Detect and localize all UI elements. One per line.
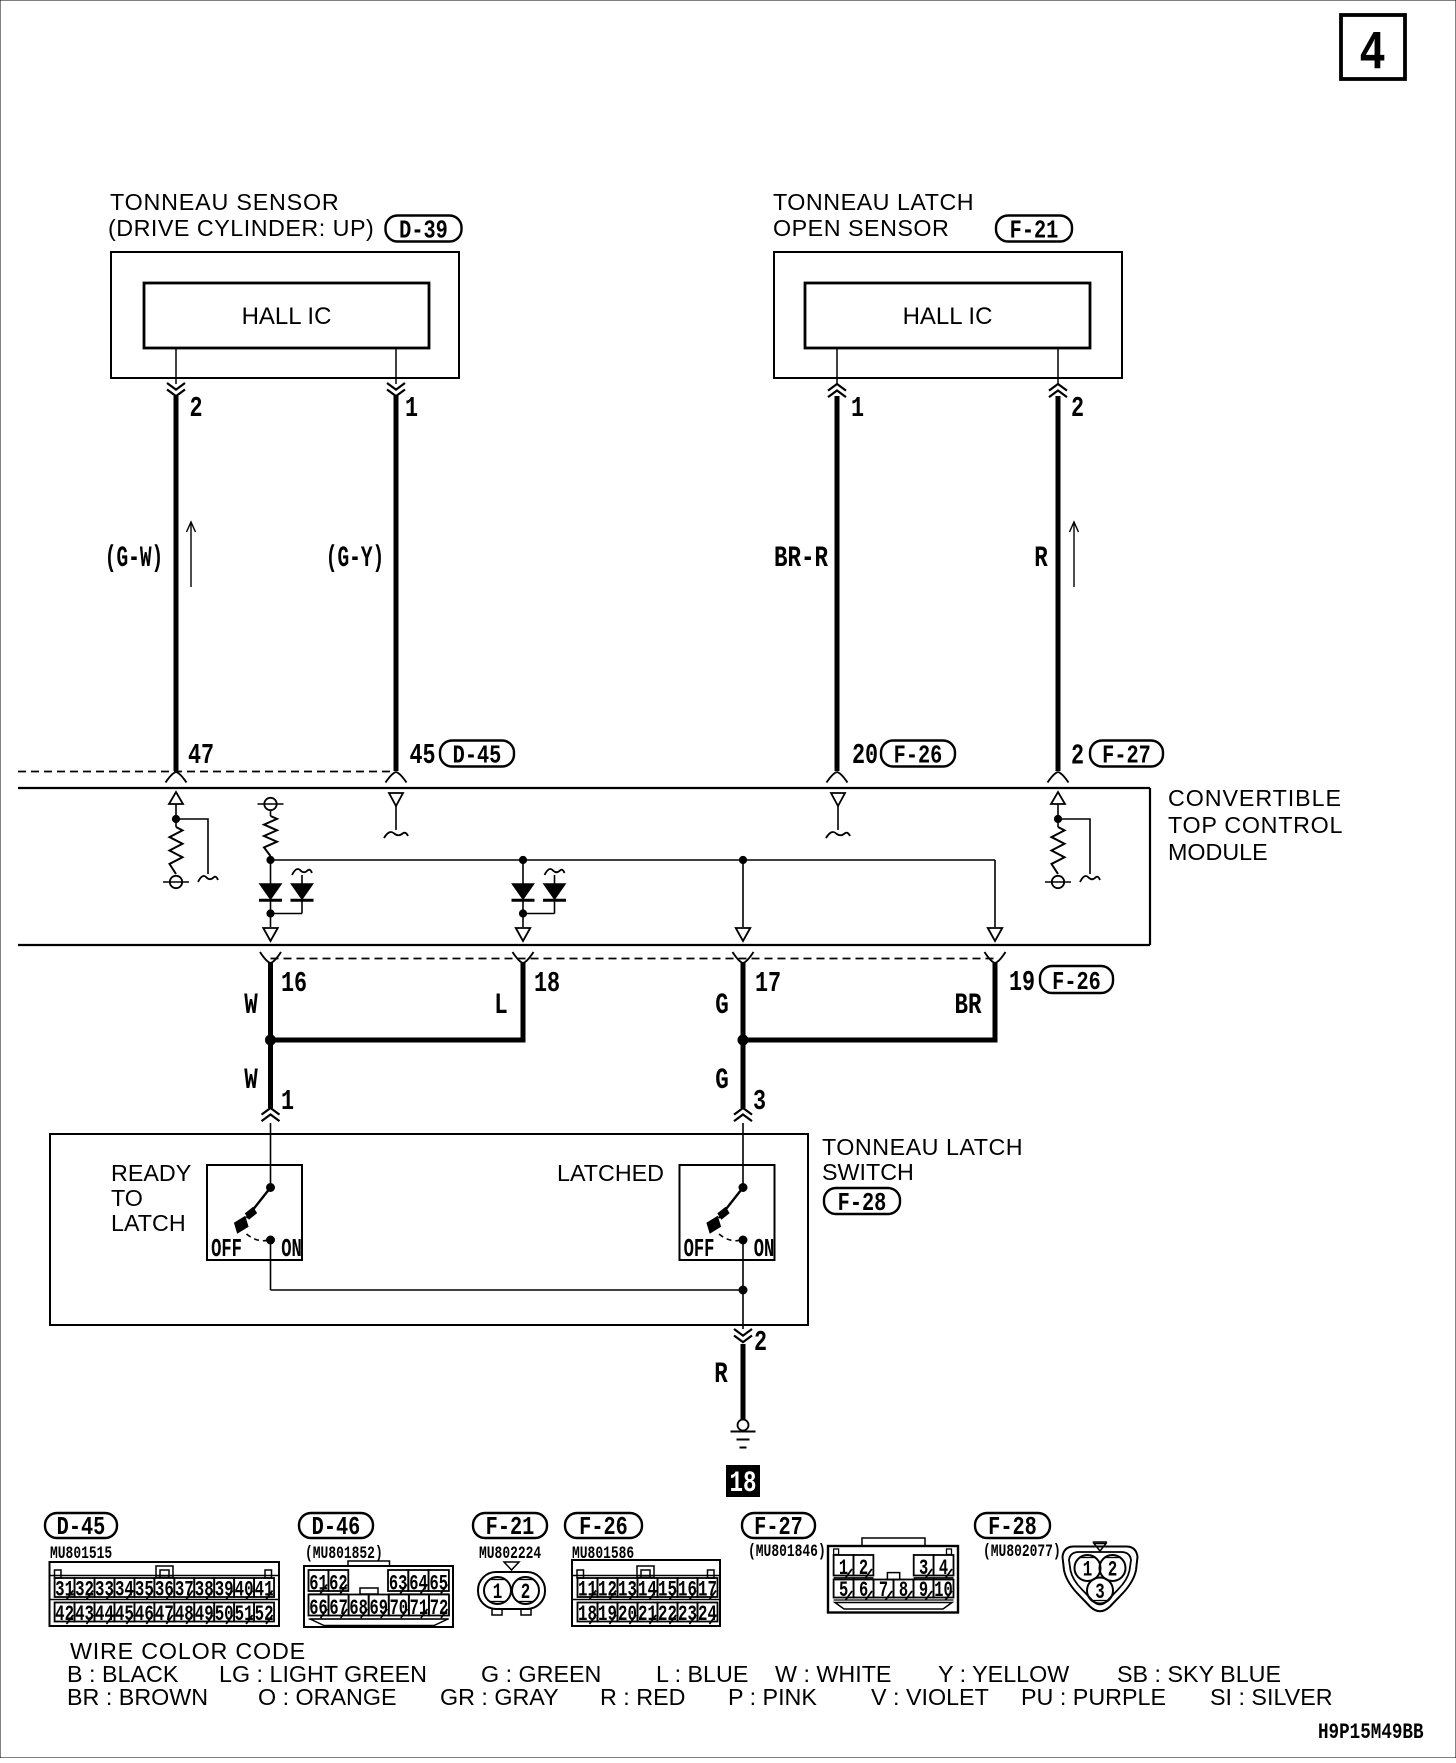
svg-text:F-26: F-26 xyxy=(894,741,943,770)
svg-text:TONNEAU SENSOR: TONNEAU SENSOR xyxy=(110,189,340,215)
svg-text:CONVERTIBLE: CONVERTIBLE xyxy=(1168,785,1342,811)
hall IC U2 box (right sensor) xyxy=(805,283,1090,348)
svg-text:72: 72 xyxy=(430,1595,448,1620)
switch pin 3 arrow xyxy=(734,1108,752,1115)
svg-text:71: 71 xyxy=(410,1595,428,1620)
signal direction arrow (R) xyxy=(1073,524,1075,587)
svg-text:12: 12 xyxy=(598,1577,617,1602)
svg-text:P : PINK: P : PINK xyxy=(728,1684,817,1710)
wire G-BR join xyxy=(741,1038,998,1043)
svg-text:41: 41 xyxy=(255,1577,274,1602)
signal squiggle (pin45) xyxy=(384,832,408,838)
svg-text:66: 66 xyxy=(309,1595,327,1620)
junction dot switch outputs xyxy=(739,1286,747,1294)
svg-text:52: 52 xyxy=(255,1601,274,1626)
svg-text:44: 44 xyxy=(95,1601,114,1626)
svg-text:SI : SILVER: SI : SILVER xyxy=(1210,1684,1333,1710)
svg-text:TOP CONTROL: TOP CONTROL xyxy=(1168,812,1343,838)
wire L (pin18) xyxy=(521,963,526,1040)
svg-text:V : VIOLET: V : VIOLET xyxy=(871,1684,989,1710)
svg-text:47: 47 xyxy=(188,739,214,772)
wire stub pin1 right sensor xyxy=(836,348,838,384)
svg-text:50: 50 xyxy=(215,1601,234,1626)
svg-text:35: 35 xyxy=(135,1577,154,1602)
svg-text:4: 4 xyxy=(1359,23,1385,85)
svg-text:OFF: OFF xyxy=(211,1235,242,1265)
svg-text:(MU802077): (MU802077) xyxy=(983,1541,1061,1562)
connector ref F-26 (footer) xyxy=(565,1513,642,1538)
svg-text:20: 20 xyxy=(852,739,878,772)
svg-text:TONNEAU LATCH: TONNEAU LATCH xyxy=(822,1134,1023,1160)
ground ref 18 (black box) xyxy=(726,1465,760,1497)
wire BR (pin19) xyxy=(993,963,998,1040)
svg-text:2: 2 xyxy=(1108,1557,1118,1582)
svg-text:TO: TO xyxy=(111,1185,143,1211)
svg-text:MU802224: MU802224 xyxy=(479,1543,541,1564)
svg-text:(DRIVE CYLINDER: UP): (DRIVE CYLINDER: UP) xyxy=(108,215,374,241)
node bus junction (pin17) xyxy=(739,856,746,863)
svg-text:3: 3 xyxy=(753,1085,766,1118)
svg-text:67: 67 xyxy=(329,1595,347,1620)
svg-text:(MU801846): (MU801846) xyxy=(748,1541,826,1562)
diode D4 (pin18, clamp) xyxy=(545,869,565,875)
bus corner wire to pin19 xyxy=(994,860,996,927)
connector ref D-39 xyxy=(386,216,462,242)
switch SW2 LATCHED (inner box, blade, OFF/ON) xyxy=(680,1165,775,1260)
svg-text:38: 38 xyxy=(195,1577,214,1602)
svg-text:D-45: D-45 xyxy=(57,1513,106,1542)
wire joining switch outputs xyxy=(271,1289,744,1291)
tonneau latch open sensor outer box xyxy=(774,252,1122,378)
connector ref F-21 (top) xyxy=(996,216,1072,242)
wire stub pin2 right sensor xyxy=(1057,348,1059,384)
connector ref F-28 (footer) xyxy=(975,1513,1050,1538)
svg-text:63: 63 xyxy=(389,1571,407,1596)
connector F-26 pinout drawing xyxy=(572,1560,720,1626)
connector D-45 pinout drawing xyxy=(50,1562,280,1626)
wire W (pin16 down) xyxy=(268,963,273,1108)
signal squiggle (pin20) xyxy=(826,832,850,838)
svg-text:18: 18 xyxy=(534,967,560,1000)
diode D3 (pin18) xyxy=(513,884,534,899)
pin 2 arrow (right sensor) xyxy=(1049,384,1067,391)
svg-text:OPEN SENSOR: OPEN SENSOR xyxy=(773,215,949,241)
pin 2 arrow (left sensor) xyxy=(167,383,185,390)
svg-text:D-39: D-39 xyxy=(399,216,448,245)
output arrow to pin18 xyxy=(516,928,531,941)
wire into switch pin1 xyxy=(270,1123,272,1188)
connector ref D-45 (footer) xyxy=(45,1513,117,1538)
svg-text:51: 51 xyxy=(235,1601,254,1626)
module pin 18 terminal xyxy=(513,952,524,963)
terminal circle (pin2 circuit) xyxy=(1052,876,1064,888)
svg-text:23: 23 xyxy=(678,1601,697,1626)
svg-text:14: 14 xyxy=(638,1577,657,1602)
module pin 19 terminal xyxy=(985,952,996,963)
terminal triangle (pin45 input) xyxy=(389,793,403,806)
terminal triangle (pin20 input) xyxy=(831,793,845,806)
internal bus wire xyxy=(271,859,996,861)
svg-text:17: 17 xyxy=(698,1577,717,1602)
module pin 17 terminal xyxy=(733,952,744,963)
svg-text:65: 65 xyxy=(430,1571,448,1596)
node bus junction (pin18) xyxy=(519,856,526,863)
svg-text:R: R xyxy=(714,1357,728,1391)
svg-text:D-45: D-45 xyxy=(453,741,502,770)
svg-text:11: 11 xyxy=(578,1577,597,1602)
svg-text:17: 17 xyxy=(755,967,781,1000)
resistor R1 (pin47 pull) xyxy=(170,827,183,874)
svg-text:G: G xyxy=(715,988,728,1022)
svg-text:F-28: F-28 xyxy=(838,1189,887,1218)
svg-text:16: 16 xyxy=(678,1577,697,1602)
connector ref F-28 (switch) xyxy=(824,1188,900,1214)
svg-text:L: L xyxy=(494,988,507,1022)
svg-text:36: 36 xyxy=(155,1577,174,1602)
svg-text:20: 20 xyxy=(618,1601,637,1626)
terminal circle (pin47 circuit) xyxy=(170,876,182,888)
svg-text:16: 16 xyxy=(281,967,307,1000)
svg-text:1: 1 xyxy=(851,392,864,425)
svg-text:2: 2 xyxy=(1071,392,1084,425)
convertible top control module box xyxy=(18,787,1150,789)
wire R (to ground) xyxy=(741,1344,746,1419)
svg-text:61: 61 xyxy=(309,1571,327,1596)
svg-text:LATCH: LATCH xyxy=(111,1210,186,1236)
node bus junction (pin16) xyxy=(267,856,274,863)
svg-text:49: 49 xyxy=(195,1601,214,1626)
wire G (pin17 down) xyxy=(741,963,746,1108)
module pin 45 terminal xyxy=(386,772,397,783)
internal ground branch (pin2 circuit) xyxy=(1058,819,1090,874)
svg-text:48: 48 xyxy=(175,1601,194,1626)
connector D-46 pinout drawing xyxy=(304,1566,453,1627)
tonneau latch switch box xyxy=(50,1134,808,1325)
output arrow to pin16 xyxy=(263,928,278,941)
svg-text:37: 37 xyxy=(175,1577,194,1602)
svg-text:22: 22 xyxy=(658,1601,677,1626)
node junction (pin2 circuit) xyxy=(1054,815,1061,822)
module pin 2 terminal xyxy=(1048,772,1059,783)
svg-text:MU801515: MU801515 xyxy=(50,1543,112,1564)
svg-text:LATCHED: LATCHED xyxy=(557,1160,664,1186)
junction dot W/L xyxy=(266,1035,276,1045)
svg-text:40: 40 xyxy=(235,1577,254,1602)
svg-text:19: 19 xyxy=(598,1601,617,1626)
wire into switch pin3 xyxy=(742,1123,744,1188)
node junction below diodes (pin16) xyxy=(267,910,274,917)
svg-text:F-28: F-28 xyxy=(988,1513,1037,1542)
svg-text:HALL IC: HALL IC xyxy=(242,303,332,330)
svg-text:18: 18 xyxy=(578,1601,597,1626)
connector D-45 dashed boundary xyxy=(18,771,392,773)
svg-text:1: 1 xyxy=(405,392,418,425)
wire BR-R (pin1 to module pin20) xyxy=(835,396,840,771)
svg-text:(G-W): (G-W) xyxy=(105,541,164,575)
svg-text:13: 13 xyxy=(618,1577,637,1602)
svg-text:PU : PURPLE: PU : PURPLE xyxy=(1021,1684,1166,1710)
svg-text:W: W xyxy=(244,988,258,1022)
svg-text:ON: ON xyxy=(754,1235,775,1265)
svg-text:H9P15M49BB: H9P15M49BB xyxy=(1318,1719,1424,1744)
wire R (pin2 to module pin2) xyxy=(1056,396,1061,771)
wire stub pin1 left sensor xyxy=(395,348,397,384)
svg-text:F-27: F-27 xyxy=(754,1513,803,1542)
pin 1 arrow (right sensor) xyxy=(828,384,846,391)
svg-text:TONNEAU LATCH: TONNEAU LATCH xyxy=(773,189,974,215)
connector ref D-45 (module) xyxy=(440,741,514,767)
connector ref F-27 (footer) xyxy=(742,1513,815,1538)
svg-text:BR-R: BR-R xyxy=(774,541,828,575)
svg-text:15: 15 xyxy=(658,1577,677,1602)
svg-text:G: G xyxy=(715,1063,728,1097)
switch pin 2 arrow xyxy=(734,1329,752,1336)
svg-text:F-21: F-21 xyxy=(486,1513,535,1542)
svg-text:18: 18 xyxy=(730,1466,757,1500)
connector ref F-26 (pin20) xyxy=(881,741,955,767)
svg-text:42: 42 xyxy=(55,1601,74,1626)
svg-text:F-27: F-27 xyxy=(1102,741,1151,770)
svg-text:33: 33 xyxy=(95,1577,114,1602)
sheet number 4 box xyxy=(1341,15,1405,79)
connector F-27 pinout drawing xyxy=(828,1546,958,1613)
connector ref F-21 (footer) xyxy=(473,1513,547,1538)
svg-text:SWITCH: SWITCH xyxy=(822,1159,914,1185)
svg-text:ON: ON xyxy=(281,1235,302,1265)
junction dot G/BR xyxy=(738,1035,748,1045)
diode D1 (pin16) xyxy=(260,884,281,899)
svg-text:64: 64 xyxy=(409,1571,427,1596)
pin 1 arrow (left sensor) xyxy=(387,383,405,390)
svg-text:34: 34 xyxy=(115,1577,134,1602)
svg-text:1: 1 xyxy=(1083,1557,1093,1582)
connector ref F-26 (bottom) xyxy=(1040,966,1113,993)
svg-text:F-26: F-26 xyxy=(579,1513,628,1542)
svg-text:BR: BR xyxy=(955,988,982,1022)
svg-text:OFF: OFF xyxy=(684,1235,715,1265)
svg-text:31: 31 xyxy=(55,1577,74,1602)
connector F-21 pinout drawing xyxy=(504,1562,519,1570)
resistor R2 (pin16 circuit) xyxy=(270,810,272,816)
wire G-Y (pin1 to module pin45) xyxy=(394,396,399,771)
svg-text:2: 2 xyxy=(754,1326,767,1359)
switch SW1 READY TO LATCH (inner box, blade, OFF/ON) xyxy=(207,1165,302,1260)
svg-text:43: 43 xyxy=(75,1601,94,1626)
power symbol above resistor (pin47 circuit) xyxy=(169,792,183,804)
svg-text:F-26: F-26 xyxy=(1052,968,1101,997)
svg-text:70: 70 xyxy=(390,1595,408,1620)
power symbol above resistor (pin2 circuit) xyxy=(1051,792,1065,804)
tonneau sensor outer box xyxy=(111,252,459,378)
svg-text:45: 45 xyxy=(410,739,436,772)
resistor R3 (pin2 pull) xyxy=(1052,827,1065,874)
svg-text:68: 68 xyxy=(349,1595,367,1620)
diode D2 (pin16, clamp) xyxy=(292,869,312,875)
module pin 47 terminal xyxy=(166,772,177,783)
connector F-26 dashed boundary xyxy=(271,958,996,960)
svg-text:46: 46 xyxy=(135,1601,154,1626)
output arrow to pin17 xyxy=(736,928,751,941)
svg-text:47: 47 xyxy=(155,1601,174,1626)
svg-text:O : ORANGE: O : ORANGE xyxy=(258,1684,397,1710)
module pin 20 terminal xyxy=(827,772,838,783)
wire G-W (pin2 to module pin47) xyxy=(174,396,179,771)
svg-text:GR : GRAY: GR : GRAY xyxy=(440,1684,559,1710)
svg-text:24: 24 xyxy=(698,1601,717,1626)
svg-text:F-21: F-21 xyxy=(1010,216,1059,245)
connector ref F-27 (pin2) xyxy=(1090,741,1163,767)
wire stub pin2 left sensor xyxy=(175,348,177,384)
svg-text:HALL IC: HALL IC xyxy=(903,303,993,330)
svg-text:D-46: D-46 xyxy=(312,1513,361,1542)
svg-text:62: 62 xyxy=(329,1571,347,1596)
switch pin 1 arrow xyxy=(262,1108,280,1115)
module pin 16 terminal xyxy=(260,952,271,963)
connector F-28 pinout drawing xyxy=(1093,1541,1107,1543)
output arrow to pin19 xyxy=(988,928,1003,941)
internal ground branch (pin47 circuit) xyxy=(176,819,208,874)
node junction below diodes (pin18) xyxy=(519,910,526,917)
svg-text:BR : BROWN: BR : BROWN xyxy=(67,1684,208,1710)
svg-text:69: 69 xyxy=(370,1595,388,1620)
svg-text:R: R xyxy=(1034,541,1048,575)
svg-text:(G-Y): (G-Y) xyxy=(326,541,385,575)
svg-text:2: 2 xyxy=(190,392,203,425)
svg-text:19: 19 xyxy=(1009,966,1035,999)
ground symbol xyxy=(738,1420,749,1431)
svg-text:READY: READY xyxy=(111,1160,192,1186)
wire W-L join xyxy=(268,1038,526,1043)
svg-text:2: 2 xyxy=(1071,740,1084,773)
svg-text:W: W xyxy=(244,1063,258,1097)
svg-text:39: 39 xyxy=(215,1577,234,1602)
svg-text:10: 10 xyxy=(934,1577,952,1602)
wire to switch pin2 xyxy=(742,1290,744,1329)
connector ref D-46 (footer) xyxy=(299,1513,373,1538)
hall IC U1 box (left sensor) xyxy=(144,283,429,348)
svg-text:45: 45 xyxy=(115,1601,134,1626)
svg-text:32: 32 xyxy=(75,1577,94,1602)
supply circle (pin16 circuit) xyxy=(264,798,276,810)
svg-text:MODULE: MODULE xyxy=(1168,839,1268,865)
svg-text:1: 1 xyxy=(281,1085,294,1118)
node junction (pin47 circuit) xyxy=(172,815,179,822)
svg-text:21: 21 xyxy=(638,1601,657,1626)
svg-text:R : RED: R : RED xyxy=(600,1684,685,1710)
signal direction arrow (G-W) xyxy=(190,524,192,587)
